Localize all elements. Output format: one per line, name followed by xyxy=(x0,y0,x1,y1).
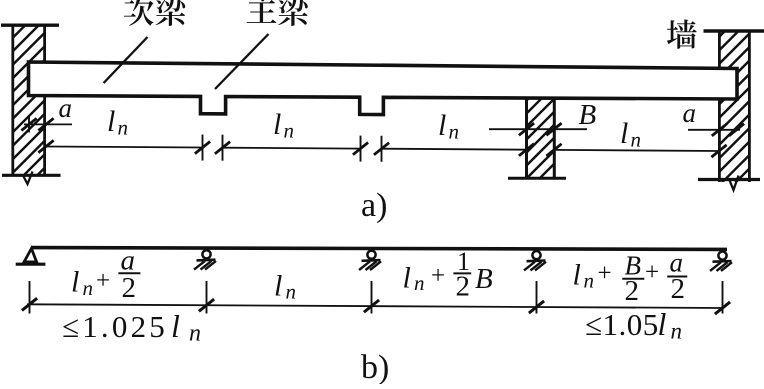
svg-text:l: l xyxy=(658,306,667,342)
right wall break mark xyxy=(729,176,739,191)
left wall top cap xyxy=(1,24,59,27)
label qiang (wall) char xyxy=(667,19,697,48)
right wall top cap xyxy=(704,29,764,33)
svg-text:l: l xyxy=(107,105,115,138)
svg-text:l: l xyxy=(274,270,282,303)
svg-text:n: n xyxy=(189,321,201,347)
column right edge xyxy=(553,97,556,179)
tick column left xyxy=(519,144,534,156)
tick wall face left xyxy=(38,140,53,152)
dim line B xyxy=(489,128,587,130)
tick at beam left end xyxy=(21,118,36,130)
roller support 1 xyxy=(202,250,210,258)
chain dim line span3 xyxy=(382,149,527,150)
svg-text:+: + xyxy=(431,263,445,290)
svg-text:n: n xyxy=(414,271,425,295)
right wall left edge xyxy=(718,31,721,182)
tick right wall face xyxy=(712,124,727,136)
svg-text:2: 2 xyxy=(625,275,640,307)
svg-text:2: 2 xyxy=(122,272,137,304)
roller support 3 xyxy=(532,251,540,259)
column bottom cap xyxy=(508,177,566,180)
label liang (beam) char 1 xyxy=(156,0,186,26)
svg-text:n: n xyxy=(83,276,94,300)
tick notch2 left xyxy=(353,143,368,155)
svg-text:B: B xyxy=(579,99,597,131)
roller support 2 xyxy=(367,251,375,259)
pin support ground line xyxy=(16,263,46,266)
extension line xyxy=(371,281,373,314)
left wall left edge xyxy=(11,25,14,176)
tick b1 xyxy=(22,298,37,310)
tick b4 xyxy=(529,301,544,313)
svg-text:2: 2 xyxy=(671,273,686,305)
label zhu (main) char xyxy=(247,0,277,23)
svg-text:n: n xyxy=(671,319,683,344)
leader line to zhu liang label xyxy=(215,34,269,89)
svg-text:a): a) xyxy=(361,187,387,224)
tick beam right end xyxy=(729,124,744,136)
svg-text:l: l xyxy=(620,117,628,150)
beam (secondary beam) body with two main-beam tabs xyxy=(29,62,738,115)
svg-text:n: n xyxy=(631,128,642,152)
svg-text:l: l xyxy=(171,308,180,344)
left wall hatching xyxy=(8,0,50,218)
tick B right xyxy=(546,123,561,135)
svg-text:n: n xyxy=(118,116,129,140)
right wall hatching xyxy=(715,2,755,231)
svg-text:B: B xyxy=(475,263,493,295)
extension line xyxy=(536,281,538,314)
extension line xyxy=(722,281,724,314)
svg-text:n: n xyxy=(286,280,297,304)
svg-text:a: a xyxy=(59,93,73,123)
left wall bottom cap xyxy=(2,174,61,177)
tick b3 xyxy=(364,300,379,312)
chain dim line span4 xyxy=(554,150,719,151)
svg-text:l: l xyxy=(273,108,281,141)
svg-text:+: + xyxy=(598,260,612,287)
column hatching xyxy=(522,68,559,222)
extension line xyxy=(29,281,31,314)
left wall break mark xyxy=(23,172,33,185)
svg-text:+: + xyxy=(645,259,659,286)
svg-text:≤1.025: ≤1.025 xyxy=(62,309,168,344)
label liang (beam) char 2 xyxy=(278,0,308,26)
idealized beam line xyxy=(32,248,727,250)
svg-text:n: n xyxy=(584,269,595,293)
chain dim line span1 xyxy=(46,147,203,148)
svg-text:n: n xyxy=(449,120,460,144)
svg-text:≤1.05: ≤1.05 xyxy=(585,307,659,342)
tick notch1 left xyxy=(195,142,210,154)
svg-text:b): b) xyxy=(361,349,389,384)
tick b2 xyxy=(199,299,214,311)
svg-text:+: + xyxy=(96,268,110,295)
svg-text:n: n xyxy=(284,119,295,143)
label ci (secondary) char xyxy=(124,0,154,26)
pin support left xyxy=(24,249,36,262)
tick column right xyxy=(546,144,561,156)
svg-text:l: l xyxy=(573,259,581,292)
dim line a left bearing xyxy=(24,123,72,125)
column left edge xyxy=(525,97,528,179)
tick wall face right xyxy=(711,145,726,157)
svg-text:a: a xyxy=(683,98,697,128)
tick b5 xyxy=(715,302,730,314)
tick B left xyxy=(519,123,534,135)
left wall right edge xyxy=(43,25,46,176)
dim line a right bearing xyxy=(688,129,740,131)
chain dim line span2 xyxy=(223,147,361,150)
leader line to ci liang label xyxy=(104,37,148,83)
chain dim line b xyxy=(27,304,723,308)
svg-text:2: 2 xyxy=(456,271,471,303)
right wall right edge xyxy=(748,31,751,182)
extension line xyxy=(206,281,208,314)
right wall bottom cap xyxy=(698,178,760,181)
tick at left wall inner face xyxy=(38,118,53,130)
svg-text:l: l xyxy=(71,266,79,299)
tick notch2 right xyxy=(374,143,389,155)
svg-text:l: l xyxy=(403,262,411,295)
tick notch1 right xyxy=(215,142,230,154)
svg-text:l: l xyxy=(438,109,446,142)
roller support 4 xyxy=(718,252,726,260)
